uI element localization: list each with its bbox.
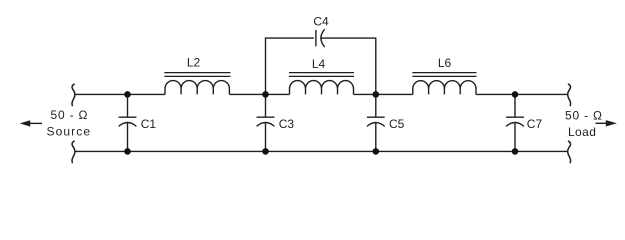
svg-text:C4: C4 — [313, 14, 329, 28]
svg-text:50 - Ω: 50 - Ω — [565, 109, 603, 123]
svg-text:L2: L2 — [187, 56, 201, 70]
svg-text:L6: L6 — [438, 56, 452, 70]
svg-text:C5: C5 — [389, 117, 405, 131]
svg-text:50 - Ω: 50 - Ω — [51, 108, 89, 122]
svg-text:C1: C1 — [141, 117, 157, 131]
svg-text:C3: C3 — [279, 117, 295, 131]
svg-text:L4: L4 — [312, 57, 326, 71]
svg-text:C7: C7 — [527, 117, 543, 131]
svg-text:Load: Load — [568, 125, 597, 139]
svg-text:Source: Source — [47, 125, 92, 139]
